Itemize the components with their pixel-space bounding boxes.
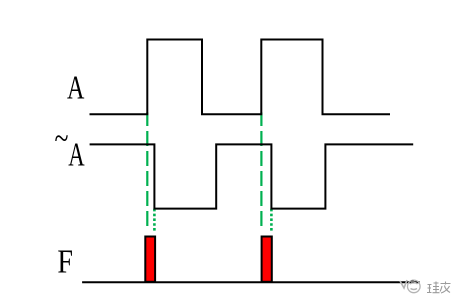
svg-text:A: A bbox=[67, 69, 84, 106]
label ~A bbox=[55, 121, 85, 174]
waveform ~A bbox=[91, 144, 413, 208]
green dotted guide line 1 (at ~A falling edge) bbox=[153, 209, 156, 232]
svg-text:A: A bbox=[68, 137, 84, 174]
waveform A bbox=[91, 40, 390, 115]
green dashed guide line 2 (at A rising edge) bbox=[260, 113, 262, 227]
svg-text:~: ~ bbox=[55, 121, 69, 158]
svg-text:F: F bbox=[57, 243, 73, 280]
glitch pulse F1 (red) bbox=[145, 237, 155, 282]
watermark logo circle bbox=[400, 280, 420, 293]
glitch pulse F2 (red) bbox=[262, 237, 272, 282]
char 1 硅 bbox=[427, 285, 432, 293]
green dotted guide line 2 (at ~A falling edge) bbox=[270, 209, 273, 232]
watermark dark dot bbox=[411, 280, 414, 283]
char 2 农 bbox=[440, 282, 451, 294]
waveform F baseline bbox=[83, 281, 419, 283]
watermark text 硅农 (simulated glyph strokes) bbox=[427, 282, 451, 294]
green dashed guide line 1 (at A rising edge) bbox=[146, 113, 148, 227]
